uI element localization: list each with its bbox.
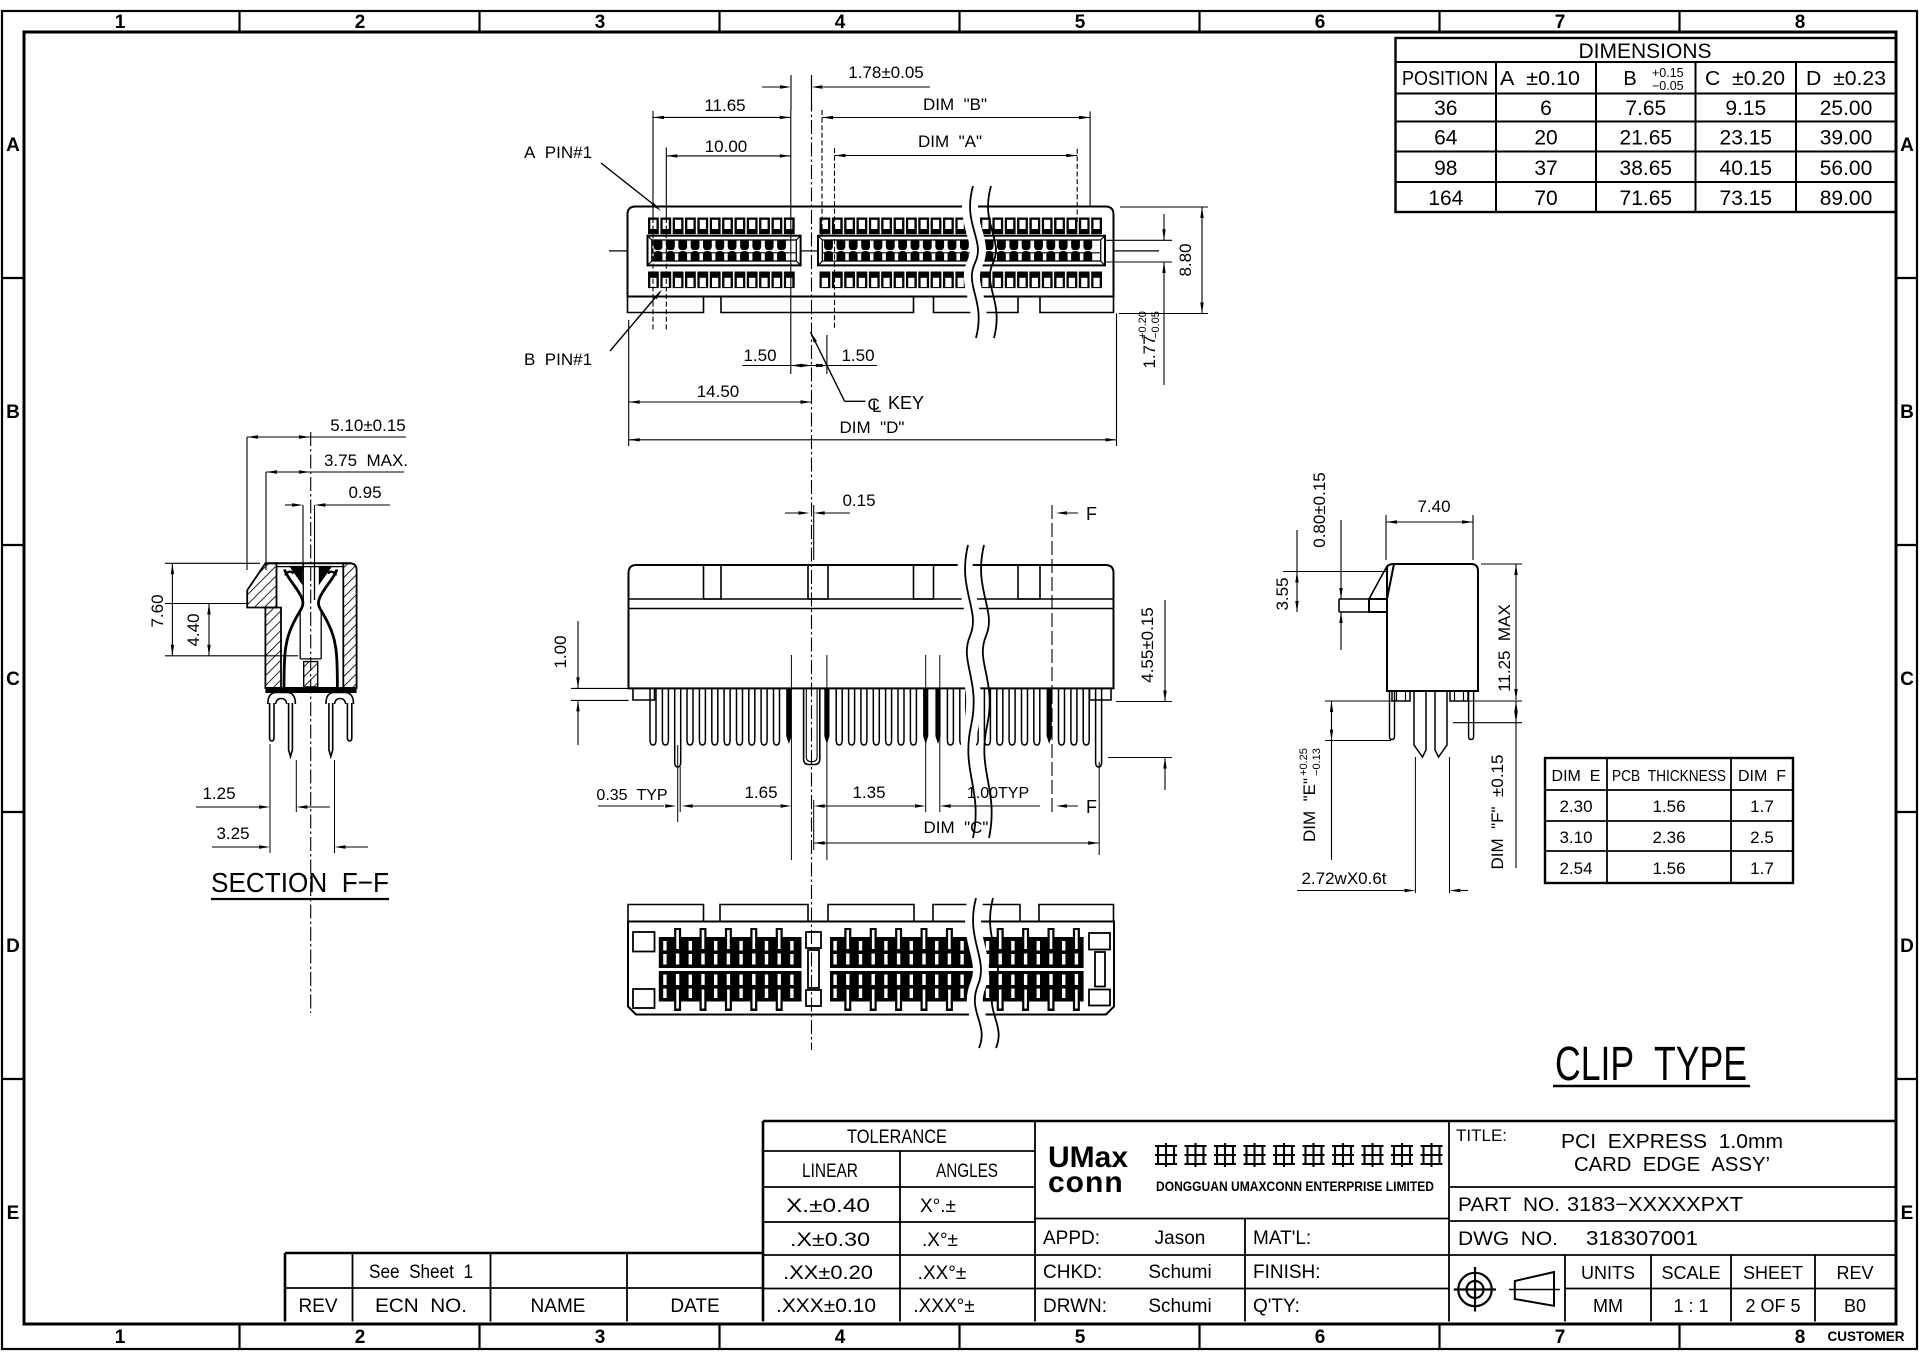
- dim DIM C: [814, 818, 1099, 845]
- svg-text:56.00: 56.00: [1820, 157, 1873, 180]
- bottom view key blocks: [806, 932, 821, 1006]
- side view clip arm: [1339, 566, 1387, 612]
- svg-text:7: 7: [1555, 12, 1566, 33]
- svg-text:11.25 MAX: 11.25 MAX: [1495, 604, 1514, 692]
- svg-text:73.15: 73.15: [1720, 187, 1773, 210]
- APPD/CHKD/DRWN cells: [1035, 1219, 1449, 1322]
- svg-text:A PIN#1: A PIN#1: [524, 143, 592, 162]
- svg-text:DIM "D": DIM "D": [840, 418, 905, 437]
- front view break lines: [965, 545, 992, 838]
- svg-text:1.56: 1.56: [1652, 859, 1685, 878]
- svg-text:APPD:: APPD:: [1043, 1228, 1100, 1249]
- svg-text:PCI EXPRESS 1.0mm: PCI EXPRESS 1.0mm: [1561, 1131, 1783, 1153]
- vertical centerline of key (CL): [811, 75, 813, 1050]
- svg-text:7: 7: [1555, 1327, 1566, 1348]
- section F-F entry funnel chamfers (hatched): [290, 567, 331, 584]
- svg-text:1.50: 1.50: [743, 346, 776, 365]
- svg-text:DRWN:: DRWN:: [1043, 1296, 1107, 1317]
- svg-text:DIM "E": DIM "E": [1300, 778, 1319, 842]
- svg-text:REV: REV: [298, 1296, 337, 1317]
- svg-text:40.15: 40.15: [1720, 157, 1773, 180]
- dim 1.78±0.05: [762, 63, 930, 110]
- svg-text:1.00TYP: 1.00TYP: [967, 785, 1029, 802]
- top view upper pad row (A pins): [648, 218, 1102, 235]
- svg-text:8.80: 8.80: [1176, 243, 1195, 276]
- side view body outline: [1369, 564, 1478, 691]
- dim 1.50 left: [743, 346, 878, 367]
- svg-text:.XXX±0.10: .XXX±0.10: [776, 1296, 876, 1317]
- svg-text:3: 3: [595, 1327, 606, 1348]
- svg-text:1.35: 1.35: [852, 783, 885, 802]
- section F-F left wall upper slab (hatched): [247, 563, 276, 607]
- svg-text:37: 37: [1534, 157, 1557, 180]
- svg-text:CUSTOMER: CUSTOMER: [1827, 1329, 1904, 1344]
- svg-text:20: 20: [1534, 127, 1557, 150]
- svg-text:A: A: [1900, 135, 1914, 156]
- zone letters left: [6, 135, 20, 1224]
- zone tick marks bottom band: [240, 1324, 1680, 1349]
- svg-text:L: L: [872, 397, 881, 416]
- zone letters right: [1900, 135, 1914, 1224]
- title block outer lines: [285, 1121, 1896, 1322]
- section F-F top shelf edge: [265, 563, 351, 566]
- dim 8.80: [1119, 207, 1208, 314]
- top view bottom standoff strip with notches: [628, 297, 1114, 313]
- svg-text:8: 8: [1795, 12, 1806, 33]
- svg-text:NAME: NAME: [531, 1296, 586, 1317]
- svg-text:2.54: 2.54: [1559, 859, 1592, 878]
- front view top tab notches: [704, 565, 1041, 599]
- svg-text:Schumi: Schumi: [1148, 1296, 1211, 1317]
- svg-text:KEY: KEY: [888, 393, 924, 413]
- svg-text:C: C: [1900, 669, 1914, 690]
- dim DIM B: [822, 95, 1090, 240]
- svg-text:5: 5: [1075, 12, 1086, 33]
- bottom view right end blocks: [1089, 933, 1110, 1006]
- top view left contact slot: [648, 236, 801, 266]
- dim DIM D: [629, 314, 1117, 447]
- section F-F card slot channel: [303, 563, 314, 600]
- section F-F right fork pin: [326, 693, 354, 757]
- svg-text:D: D: [1900, 936, 1914, 957]
- svg-text:.XX°±: .XX°±: [918, 1263, 967, 1284]
- svg-text:89.00: 89.00: [1820, 187, 1873, 210]
- dim 11.65: [653, 96, 791, 330]
- dim 0.15: [785, 491, 876, 560]
- svg-text:1.7: 1.7: [1750, 859, 1774, 878]
- svg-text:TITLE:: TITLE:: [1456, 1126, 1507, 1145]
- svg-text:B PIN#1: B PIN#1: [524, 350, 592, 369]
- bottom view break lines: [973, 898, 999, 1048]
- svg-text:MAT'L:: MAT'L:: [1253, 1228, 1311, 1249]
- svg-text:POSITION: POSITION: [1402, 68, 1488, 90]
- svg-text:7.60: 7.60: [148, 594, 167, 627]
- svg-text:38.65: 38.65: [1620, 157, 1673, 180]
- section line F top: [1052, 504, 1097, 690]
- svg-text:SECTION F−F: SECTION F−F: [211, 867, 389, 898]
- front view step lines: [629, 599, 1114, 609]
- dim 7.40: [1386, 497, 1473, 560]
- svg-text:LINEAR: LINEAR: [802, 1161, 858, 1182]
- svg-text:0.80±0.15: 0.80±0.15: [1310, 472, 1329, 548]
- svg-text:REV: REV: [1836, 1263, 1873, 1283]
- zone tick marks right band: [1896, 278, 1917, 1079]
- CLIP TYPE label: [1553, 1038, 1750, 1091]
- svg-text:See Sheet 1: See Sheet 1: [369, 1262, 473, 1283]
- svg-text:5.10±0.15: 5.10±0.15: [330, 416, 406, 435]
- svg-text:3: 3: [595, 12, 606, 33]
- svg-text:10.00: 10.00: [705, 137, 748, 156]
- svg-text:25.00: 25.00: [1820, 97, 1873, 120]
- svg-text:B0: B0: [1844, 1296, 1866, 1316]
- svg-text:4: 4: [835, 12, 846, 33]
- svg-text:.XXX°±: .XXX°±: [913, 1296, 974, 1317]
- section F-F centerline: [310, 432, 312, 1013]
- svg-text:B: B: [1623, 68, 1636, 90]
- svg-text:CHKD:: CHKD:: [1043, 1262, 1102, 1283]
- svg-text:DONGGUAN UMAXCONN ENTERPRISE L: DONGGUAN UMAXCONN ENTERPRISE LIMITED: [1156, 1179, 1434, 1194]
- svg-text:1.25: 1.25: [202, 784, 235, 803]
- dim 4.40: [165, 604, 249, 656]
- leader A PIN#1: [524, 143, 661, 211]
- dim 14.50: [629, 320, 812, 446]
- svg-text:21.65: 21.65: [1620, 127, 1673, 150]
- section F-F right spring contact: [318, 570, 337, 688]
- svg-text:B: B: [6, 402, 20, 423]
- front view pin row: [650, 688, 1102, 767]
- svg-text:71.65: 71.65: [1620, 187, 1673, 210]
- UMaxconn logo: [1048, 1141, 1443, 1199]
- section F-F base bar: [265, 687, 356, 693]
- dim DIM E: [1298, 701, 1396, 860]
- svg-text:CARD EDGE ASSY’: CARD EDGE ASSY’: [1574, 1154, 1770, 1176]
- svg-text:DIM E: DIM E: [1552, 768, 1601, 785]
- side view clip hooks: [1390, 691, 1474, 740]
- svg-text:ECN NO.: ECN NO.: [375, 1296, 467, 1317]
- svg-text:318307001: 318307001: [1586, 1228, 1698, 1250]
- svg-text:3.55: 3.55: [1273, 577, 1292, 610]
- svg-text:−0.05: −0.05: [1652, 79, 1684, 93]
- projection symbol cone: [1509, 1272, 1560, 1306]
- svg-text:4: 4: [835, 1327, 846, 1348]
- svg-text:1.56: 1.56: [1652, 797, 1685, 816]
- svg-text:2 OF 5: 2 OF 5: [1745, 1296, 1800, 1316]
- svg-text:6: 6: [1315, 1327, 1326, 1348]
- svg-text:Schumi: Schumi: [1148, 1262, 1211, 1283]
- svg-text:7.40: 7.40: [1417, 497, 1450, 516]
- svg-text:0.15: 0.15: [842, 491, 875, 510]
- top view break lines: [970, 186, 997, 338]
- svg-text:DIM F: DIM F: [1738, 768, 1786, 785]
- svg-text:4.40: 4.40: [184, 613, 203, 646]
- svg-text:2.5: 2.5: [1750, 828, 1774, 847]
- bottom view body outline: [628, 922, 1114, 1015]
- svg-text:3.10: 3.10: [1559, 828, 1592, 847]
- svg-text:98: 98: [1434, 157, 1457, 180]
- svg-text:0.35 TYP: 0.35 TYP: [596, 787, 667, 804]
- svg-text:1.50: 1.50: [841, 346, 874, 365]
- dim 3.25: [212, 760, 368, 853]
- svg-text:14.50: 14.50: [697, 382, 740, 401]
- side view blade pins: [1414, 691, 1447, 757]
- DIMENSIONS table data rows: [1428, 97, 1872, 210]
- svg-text:DIM "B": DIM "B": [923, 95, 987, 114]
- svg-text:F: F: [1086, 504, 1097, 524]
- dim 1.50 right: [812, 335, 875, 374]
- section F-F center tongue: [300, 611, 321, 659]
- svg-text:A: A: [6, 135, 20, 156]
- dim 2.72wX0.6t: [1297, 757, 1468, 893]
- zone numbers bottom: [115, 1327, 1806, 1348]
- bottom view right contact bands: [830, 928, 1084, 1011]
- SECTION F-F label: [211, 867, 389, 899]
- dim DIM F: [1453, 701, 1522, 869]
- svg-text:6: 6: [1540, 97, 1552, 120]
- dim 3.75 MAX.: [266, 451, 408, 570]
- svg-text:FINISH:: FINISH:: [1253, 1262, 1321, 1283]
- svg-text:11.65: 11.65: [704, 96, 745, 115]
- zone tick marks left band: [2, 278, 24, 1079]
- leader B PIN#1: [524, 290, 662, 370]
- TITLE section: [1449, 1121, 1896, 1322]
- svg-text:B: B: [1900, 402, 1914, 423]
- svg-text:−0.13: −0.13: [1311, 748, 1323, 776]
- svg-text:164: 164: [1428, 187, 1463, 210]
- svg-text:A ±0.10: A ±0.10: [1500, 68, 1580, 90]
- svg-text:6: 6: [1315, 12, 1326, 33]
- section F-F right wall (hatched): [343, 563, 356, 688]
- svg-text:E: E: [7, 1203, 20, 1224]
- DIMENSIONS table frame: [1396, 38, 1897, 212]
- svg-text:DATE: DATE: [670, 1296, 719, 1317]
- dim 7.60: [148, 563, 298, 656]
- zone numbers top: [115, 12, 1806, 33]
- svg-text:UNITS: UNITS: [1581, 1263, 1635, 1283]
- leader CL KEY: [811, 332, 925, 416]
- DIMENSIONS table headers: [1402, 66, 1886, 93]
- section F-F left fork pin: [268, 693, 296, 757]
- svg-text:2.72wX0.6t: 2.72wX0.6t: [1301, 869, 1386, 888]
- top view horizontal centerline: [609, 250, 1159, 252]
- svg-text:4.55±0.15: 4.55±0.15: [1138, 607, 1157, 683]
- REV/ECN table: [285, 1253, 763, 1322]
- svg-text:Q'TY:: Q'TY:: [1253, 1296, 1300, 1317]
- section line F bottom: [1052, 690, 1097, 817]
- svg-text:PCB THICKNESS: PCB THICKNESS: [1612, 768, 1726, 785]
- top view connector body outline: [628, 207, 1114, 297]
- svg-text:DIMENSIONS: DIMENSIONS: [1578, 40, 1711, 63]
- svg-text:DIM "C": DIM "C": [924, 818, 989, 837]
- svg-text:conn: conn: [1048, 1166, 1124, 1199]
- svg-text:23.15: 23.15: [1720, 127, 1773, 150]
- dim 3.55: [1273, 530, 1387, 612]
- dim DIM A: [835, 132, 1078, 330]
- zone tick marks top band: [240, 11, 1680, 32]
- svg-text:1 : 1: 1 : 1: [1673, 1296, 1708, 1316]
- svg-text:ANGLES: ANGLES: [936, 1161, 998, 1182]
- dim 0.80±0.15: [1310, 472, 1343, 650]
- top view lower pad row (B pins): [648, 272, 1102, 289]
- svg-text:.X±0.30: .X±0.30: [790, 1230, 870, 1251]
- extension line x=791: [790, 110, 792, 374]
- svg-text:1: 1: [115, 12, 126, 33]
- section F-F left spring contact: [284, 570, 303, 688]
- section F-F center pillar (hatched): [304, 662, 318, 687]
- svg-text:Jason: Jason: [1155, 1228, 1206, 1249]
- svg-text:1.77: 1.77: [1140, 335, 1159, 368]
- bottom view left contact bands: [659, 928, 802, 1011]
- svg-text:1.7: 1.7: [1750, 797, 1774, 816]
- dim line row (0.35/1.65/1.35/1.00TYP): [596, 655, 1099, 860]
- svg-text:D ±0.23: D ±0.23: [1806, 68, 1886, 90]
- front view right foot: [1090, 688, 1112, 700]
- svg-text:2: 2: [355, 1327, 366, 1348]
- svg-text:+0.15: +0.15: [1652, 66, 1684, 80]
- svg-text:E: E: [1901, 1203, 1914, 1224]
- dim 1.77 +0.20/-0.05: [1105, 214, 1172, 385]
- svg-text:1.65: 1.65: [744, 783, 777, 802]
- svg-text:.X°±: .X°±: [922, 1230, 958, 1251]
- svg-text:9.15: 9.15: [1725, 97, 1766, 120]
- svg-text:DIM "A": DIM "A": [918, 132, 982, 151]
- svg-text:SHEET: SHEET: [1743, 1263, 1803, 1283]
- side view feet: [1392, 691, 1468, 701]
- svg-text:2.36: 2.36: [1652, 828, 1685, 847]
- section F-F left wall lower (hatched): [265, 608, 281, 689]
- front view body outline: [629, 565, 1114, 688]
- svg-text:F: F: [1086, 797, 1097, 817]
- svg-text:X.±0.40: X.±0.40: [786, 1196, 870, 1217]
- dim 4.55±0.15 (front right): [1108, 600, 1172, 790]
- svg-text:CLIP TYPE: CLIP TYPE: [1555, 1038, 1747, 1091]
- svg-text:0.95: 0.95: [348, 483, 381, 502]
- svg-text:1.00: 1.00: [551, 635, 570, 668]
- bottom view top tabs: [628, 905, 1114, 922]
- svg-text:DWG NO.: DWG NO.: [1458, 1229, 1558, 1250]
- svg-text:2.30: 2.30: [1559, 797, 1592, 816]
- svg-text:MM: MM: [1593, 1296, 1623, 1316]
- svg-text:70: 70: [1534, 187, 1557, 210]
- svg-text:.XX±0.20: .XX±0.20: [783, 1263, 873, 1284]
- svg-text:1.78±0.05: 1.78±0.05: [848, 63, 924, 82]
- svg-text:+0.25: +0.25: [1298, 748, 1310, 776]
- svg-text:3.75 MAX.: 3.75 MAX.: [324, 451, 408, 470]
- svg-text:C ±0.20: C ±0.20: [1705, 68, 1785, 90]
- UNITS/SCALE/SHEET/REV cells: [1565, 1255, 1896, 1322]
- svg-text:5: 5: [1075, 1327, 1086, 1348]
- dim 10.00: [666, 137, 791, 330]
- front view left foot: [633, 688, 655, 700]
- svg-text:39.00: 39.00: [1820, 127, 1873, 150]
- svg-text:DIM "F" ±0.15: DIM "F" ±0.15: [1488, 755, 1507, 870]
- dim 11.25 MAX: [1481, 564, 1522, 700]
- projection symbol target circle: [1454, 1267, 1496, 1312]
- svg-text:C: C: [6, 669, 20, 690]
- bottom view left end blocks: [633, 932, 655, 1008]
- svg-text:3.25: 3.25: [216, 824, 249, 843]
- svg-text:3183−XXXXXPXT: 3183−XXXXXPXT: [1567, 1194, 1743, 1216]
- dim 1.25: [196, 744, 330, 853]
- svg-text:PART NO.: PART NO.: [1458, 1195, 1560, 1216]
- svg-text:64: 64: [1434, 127, 1458, 150]
- svg-text:D: D: [6, 936, 20, 957]
- svg-text:36: 36: [1434, 97, 1457, 120]
- svg-text:+0.20: +0.20: [1137, 311, 1149, 339]
- svg-text:X°.±: X°.±: [920, 1196, 956, 1217]
- dim 0.95: [285, 483, 390, 570]
- top view right contact slot: [818, 236, 1105, 266]
- svg-text:SCALE: SCALE: [1661, 1263, 1720, 1283]
- front view key post: [804, 688, 820, 764]
- dim 1.00 (front left): [551, 621, 629, 745]
- svg-text:−0.05: −0.05: [1150, 311, 1162, 339]
- svg-text:1: 1: [115, 1327, 126, 1348]
- svg-text:2: 2: [355, 12, 366, 33]
- svg-text:7.65: 7.65: [1625, 97, 1666, 120]
- tolerance table: [763, 1121, 1449, 1322]
- dim 5.10±0.15: [247, 416, 406, 570]
- DIM E / PCB THICKNESS / DIM F table: [1545, 758, 1793, 883]
- svg-text:8: 8: [1795, 1327, 1806, 1348]
- svg-text:TOLERANCE: TOLERANCE: [847, 1127, 947, 1148]
